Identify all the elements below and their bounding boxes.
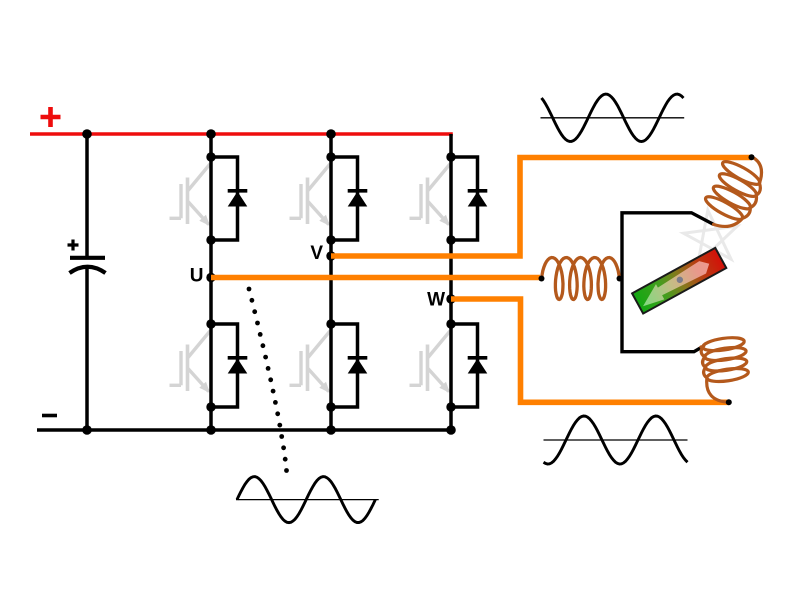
junction xyxy=(206,235,215,244)
sine wave phase W xyxy=(544,416,688,464)
inductor winding phase U xyxy=(542,258,620,300)
rotor magnet (N-S needle) xyxy=(632,248,726,314)
wire inverter leg W xyxy=(449,134,453,430)
diode D2 xyxy=(348,191,368,207)
svg-text:U: U xyxy=(190,266,204,287)
wire inverter leg V xyxy=(329,134,333,430)
wire inverter leg U xyxy=(209,134,213,430)
junction leg U top bus xyxy=(206,129,216,139)
junction xyxy=(446,235,455,244)
inductor winding phase V xyxy=(703,157,762,227)
junction xyxy=(206,152,215,161)
transistor Q2 high-side (IGBT) xyxy=(290,164,331,226)
junction xyxy=(326,319,335,328)
transistor Q5 low-side (IGBT) xyxy=(290,331,331,393)
diode D6 xyxy=(468,358,488,374)
sine wave phase V xyxy=(541,94,685,141)
junction cap top xyxy=(82,129,92,139)
diode D5 xyxy=(348,358,368,374)
junction V winding xyxy=(749,154,755,160)
junction xyxy=(326,402,335,411)
diode D4 xyxy=(228,358,248,374)
wire phase U to motor xyxy=(211,275,540,281)
junction xyxy=(446,402,455,411)
junction leg V bottom bus xyxy=(326,425,336,435)
junction xyxy=(326,235,335,244)
wire diode branch D2 xyxy=(331,157,358,240)
junction U winding left xyxy=(539,276,545,282)
junction cap bottom xyxy=(82,425,92,435)
transistor Q4 low-side (IGBT) xyxy=(170,331,211,393)
inductor winding phase W xyxy=(701,335,749,402)
diode D3 xyxy=(468,191,488,207)
wire dotted pointer from node U to sine wave U xyxy=(247,287,289,473)
svg-text:V: V xyxy=(310,243,323,264)
positive DC bus (red) xyxy=(30,132,453,136)
svg-text:W: W xyxy=(427,290,445,311)
junction xyxy=(206,402,215,411)
capacitor C1 (polarized) xyxy=(68,240,106,274)
junction xyxy=(446,152,455,161)
node U xyxy=(206,273,215,282)
junction W winding xyxy=(726,399,732,405)
wire diode branch D4 xyxy=(211,324,238,407)
diode D1 xyxy=(228,191,248,207)
wire capacitor top lead xyxy=(85,134,89,256)
sine wave phase U xyxy=(236,477,379,523)
rotor star (faint rotation symbol) xyxy=(684,210,738,263)
junction xyxy=(326,152,335,161)
wire diode branch D6 xyxy=(451,324,478,407)
negative DC bus xyxy=(37,428,453,432)
node V xyxy=(326,251,335,260)
junction U winding right xyxy=(617,276,623,282)
transistor Q1 high-side (IGBT) xyxy=(170,164,211,226)
transistor Q6 low-side (IGBT) xyxy=(410,331,451,393)
wire diode branch D3 xyxy=(451,157,478,240)
junction leg U bottom bus xyxy=(206,425,216,435)
wire motor frame bracket xyxy=(622,213,714,352)
junction xyxy=(206,319,215,328)
wire capacitor bottom lead xyxy=(85,268,89,431)
junction xyxy=(446,319,455,328)
plus label (DC+) xyxy=(41,107,61,127)
wire phase W to motor xyxy=(451,299,729,402)
wire diode branch D5 xyxy=(331,324,358,407)
node W xyxy=(446,294,455,303)
wire phase V to motor xyxy=(331,158,752,257)
transistor Q3 high-side (IGBT) xyxy=(410,164,451,226)
junction leg V top bus xyxy=(326,129,336,139)
wire diode branch D1 xyxy=(211,157,238,240)
junction leg W bottom bus xyxy=(446,425,456,435)
minus label (DC-) xyxy=(42,414,57,418)
